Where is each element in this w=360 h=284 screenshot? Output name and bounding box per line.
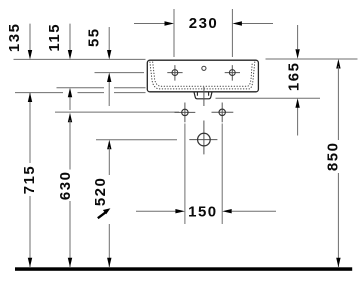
svg-text:135: 135 [6, 23, 23, 53]
dimension 630 top arrowhead [68, 113, 72, 123]
dimension 135 upper arrowhead [28, 50, 32, 60]
dimension 150 right arrowhead [222, 209, 232, 213]
svg-text:715: 715 [21, 165, 38, 195]
dimension 520 top arrowhead [107, 140, 111, 150]
fixing hole right crosshair [212, 103, 234, 123]
dimension 850 bottom arrowhead [336, 258, 340, 268]
dimension 165 upper arrow line [297, 25, 299, 49]
dimension 230 extension line right [231, 9, 233, 57]
siphon drain circle [198, 133, 211, 146]
drain fitting below basin [194, 92, 212, 99]
svg-text:55: 55 [85, 27, 102, 47]
svg-text:520: 520 [92, 177, 109, 207]
dimension 850 line lower part [337, 173, 339, 267]
dimension 150 extension line left [184, 124, 186, 225]
tap hole left crosshair [167, 65, 182, 81]
dimension 715 line lower part [29, 196, 31, 267]
svg-text:150: 150 [188, 204, 218, 221]
basin interior bowl dotted outer [150, 62, 255, 89]
interior-bottom height line (115 target) [57, 87, 146, 89]
drain height line (520 target) [96, 139, 177, 141]
drain fitting inner walls [197, 92, 208, 96]
dimension 230 left tail [134, 23, 165, 25]
floor line [15, 267, 352, 271]
dimension 150 right tail [232, 210, 276, 212]
dimension 115 upper arrow line [69, 24, 71, 51]
svg-text:230: 230 [189, 15, 219, 32]
dimension 520 line lower part [108, 224, 110, 267]
dimension 230 right tail [242, 23, 274, 25]
siphon drain circle crosshair [189, 121, 217, 155]
dimension 115 lower arrowhead [68, 88, 72, 98]
dimension 230 right arrowhead [232, 21, 242, 25]
fixing hole left circle [182, 109, 188, 115]
basin interior bowl dotted inner [153, 62, 253, 86]
svg-text:115: 115 [46, 23, 63, 52]
dimension 715 line upper part [29, 93, 31, 164]
tap hole left circle [172, 70, 178, 76]
dimension 150 left tail [136, 210, 176, 212]
dimension 850 top arrowhead [336, 59, 340, 69]
dimension 715 top arrowhead [28, 93, 32, 103]
fixing hole right circle [219, 109, 225, 115]
dimension 55 upper arrowhead [107, 50, 111, 60]
svg-text:165: 165 [285, 62, 302, 92]
dimension 115 upper arrowhead [68, 50, 72, 60]
rim extension line left [14, 58, 146, 60]
dimension 55 lower arrow line [108, 81, 110, 106]
dimension 115 lower arrow line [69, 97, 71, 111]
dimension 850 line upper part [337, 66, 339, 140]
svg-text:850: 850 [324, 142, 341, 172]
vertical centerline through drain [203, 87, 205, 106]
dimension 715 bottom arrowhead [28, 258, 32, 268]
variable-height arrow symbol [98, 212, 106, 218]
dimension 55 upper arrow line [108, 27, 110, 51]
dimension 165 lower arrowhead [295, 98, 299, 108]
fixing-hole height line (630 target) [55, 111, 179, 113]
basin lower edge line right (165 target) [216, 97, 321, 99]
dimension 165 lower arrow line [297, 107, 299, 136]
tap-hole height line (55 target) [95, 72, 145, 74]
dimension 630 line upper part [69, 120, 71, 170]
dimension 150 left arrowhead [175, 209, 185, 213]
dimension 55 lower arrowhead [107, 73, 111, 83]
rim extension line right [266, 58, 358, 60]
basin-bottom height line (135 target) [15, 92, 146, 94]
dimension 230 left arrowhead [165, 21, 175, 25]
washbasin outline [147, 60, 258, 92]
dimension 630 bottom arrowhead [68, 258, 72, 268]
svg-text:630: 630 [57, 171, 74, 201]
fixing hole left crosshair [175, 103, 196, 123]
dimension 135 upper arrow line [29, 24, 31, 51]
dimension 230 extension line left [173, 9, 175, 57]
dimension 520 line upper part [108, 147, 110, 175]
tap hole right circle [229, 70, 235, 76]
dimension 520 bottom arrowhead [107, 258, 111, 268]
dimension 630 line lower part [69, 201, 71, 267]
tap hole right crosshair [225, 65, 240, 81]
dimension 165 upper arrowhead [295, 49, 299, 59]
overflow hole [202, 66, 206, 70]
dimension 150 extension line right [221, 124, 223, 225]
